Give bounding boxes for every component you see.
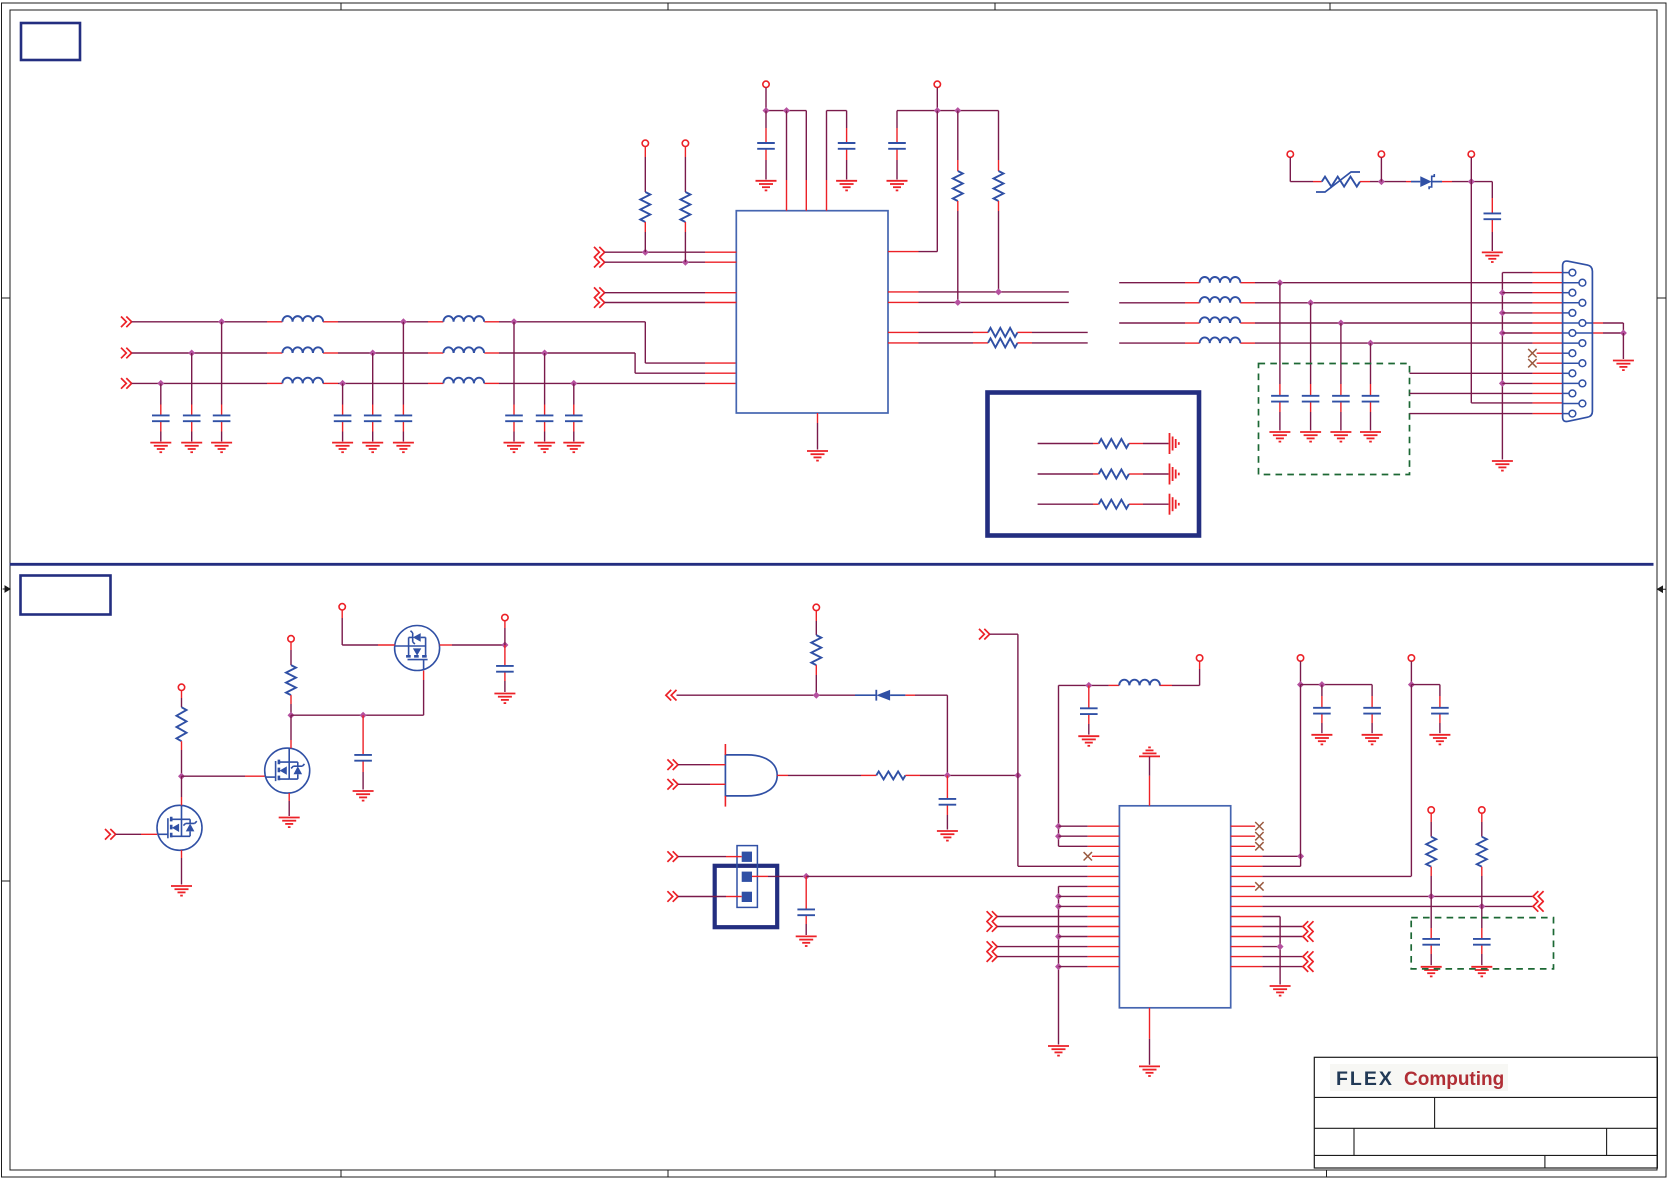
wire U3 right pin12 [1231,936,1263,938]
wire U2 in2 [678,783,710,785]
resistor R3 [953,171,963,201]
ground C10 [756,181,777,191]
logo FLEX Computing [1330,1064,1508,1091]
wire C10 branch [765,111,767,128]
ground C19 [937,831,958,841]
capacitor C17 [354,755,372,761]
pin J1-1 [1563,272,1569,274]
wire R1 bottom [644,222,646,232]
border zone ticks bottom [340,1170,342,1177]
node junction filter C3 [218,318,225,325]
wire U1 pin row 302 [605,302,705,304]
node output chevron pin14 [1303,951,1314,962]
capacitor C22 [1313,708,1331,714]
wire rail2 [897,110,999,112]
node junction filter C1 [157,380,164,387]
shield box dashed [1259,364,1410,475]
node output chevron EN [666,690,677,701]
wire U1 pin row 262 [605,261,705,263]
capacitor C13 [1484,213,1502,219]
wire U1 right row 342 [888,342,919,344]
terminal P11 [502,614,508,620]
wire R8 bottom [290,695,292,704]
wire P1 to F1 [1290,181,1313,183]
wire R9 bottom [815,665,817,675]
terminal P7 [934,81,940,87]
pin J1-13 [1563,392,1569,394]
ground filter C5 [362,443,383,453]
node phase C input chevron [121,378,132,389]
wire U3 left pin10 [997,916,1087,918]
wire P13 drop [1199,661,1201,669]
resistor R1 [640,192,650,222]
terminal P1 [1287,151,1293,157]
connector J1 body [1563,261,1593,421]
wire R7 top [181,691,183,699]
no-connect U3 right pin1 [1231,825,1256,827]
wire U3 left pin2 [1059,835,1088,837]
capacitor C7 [505,415,523,421]
wire U3 right pin15 [1231,966,1263,968]
no-connect U3 pin4 [1084,852,1092,860]
wire U1 vdd pin a [786,111,788,180]
wire Q3 gate [423,680,425,715]
node J2 input chevron 1 [667,851,678,862]
node junction U3 pin8 [1055,893,1062,900]
capacitor C25 [1422,939,1440,945]
pin J1-6 right lead [1586,322,1593,324]
sheet label box bottom [21,576,111,615]
wire C23 branch [1371,685,1373,696]
wire P11 drop [504,621,506,628]
wire R1 top [644,147,646,158]
wire U3 right pin11 [1231,926,1263,928]
terminal P16 [1428,807,1434,813]
wire D2 drop [946,695,948,775]
svg-text:FLEX: FLEX [1336,1068,1394,1090]
terminal P5 [682,140,688,146]
node junction P3 [1468,178,1475,185]
wire U3 left pin1 [1059,825,1088,827]
node junction D2 R10 [944,772,951,779]
wire rail3 to pin4 [1300,685,1302,857]
sheet label box top [21,23,80,60]
resistor R6 [988,338,1018,347]
wire filter C4 branch [342,383,344,404]
node junction filter C7 [511,318,518,325]
ground C17 [1360,432,1381,442]
node U1 left input chevron 4 [594,297,605,308]
IC U3 [1119,806,1230,1008]
pin J2-2 [742,872,752,882]
node output chevron pin12 [1303,931,1314,942]
wire U1 gnd [817,413,819,423]
wire EN row [677,694,856,696]
ground J1 [1613,361,1634,371]
pin J1-9 [1563,352,1569,354]
wire U1 right row 302 [888,301,919,303]
shield box dashed 2 [1411,918,1553,969]
node junction J1 gnd [1620,330,1627,337]
node output chevron pin11 [1303,921,1314,932]
pin J1-15 [1563,413,1569,415]
node U3 input chevron pin10 [987,911,998,922]
node junction U3 pin12 [1055,933,1062,940]
wire C17 branch [1370,343,1372,384]
node junction C21 [1085,682,1092,689]
ground C17 [353,791,374,801]
wire U3 right pin9 [1231,905,1263,907]
wire U3 left pin8 [1059,895,1088,897]
ground C21 [1078,736,1099,746]
wire P1 drop [1289,157,1291,181]
wire phase row B [132,352,267,354]
node junction R4 [995,288,1002,295]
wire filter C2 branch [191,353,193,405]
wire C11 branch [846,111,848,128]
title block column dividers [1434,1097,1436,1128]
wire mid rail [827,110,847,112]
pin J1-11 [1563,372,1569,374]
wire Q1 source [181,850,183,858]
capacitor C11 [838,143,856,149]
node junction C16 [1337,320,1344,327]
wire J1 pin3 [1502,292,1532,294]
wire U1 right row 332 [888,331,919,333]
resistor R4 [994,171,1004,201]
capacitor C16 [1332,396,1350,402]
node junction P2 [1378,178,1385,185]
node junction Q2 drain [288,712,295,719]
ground filter C7 [504,443,525,453]
node junction C18 [501,642,508,649]
node junction C14 [1276,279,1283,286]
node junction U3 pin9 [1055,903,1062,910]
node junction filter C4 [339,380,346,387]
inductor L9 [1200,317,1241,323]
termination box frame [988,393,1200,536]
wire phase row C [132,382,267,384]
ground C14 [1269,432,1290,442]
wire gate rail [291,714,363,716]
inductor L5 [443,347,484,353]
wire rail3 drop [1300,661,1302,684]
terminal P12 [813,604,819,610]
node U3 input chevron pin11 [987,921,998,932]
resistor RT3 [1099,500,1129,509]
terminal P2 [1378,151,1384,157]
pin J1-4 [1563,302,1579,304]
wire Q1 drain [181,776,183,797]
wire J1 pin11 [1410,372,1533,374]
pin J1-2 [1563,282,1579,284]
wire J1 pin15 [1410,413,1533,415]
sheet separator line [10,563,1654,566]
wire D1 out [1442,181,1452,183]
ground C13 [1482,252,1503,262]
wire output row 2 [1119,302,1185,304]
title block row lines [1314,1096,1657,1098]
capacitor C19 [939,799,957,805]
capacitor C3 [213,415,231,421]
wire Q2 source [288,793,290,801]
fuse F1 PTC [1322,177,1360,187]
wire C20 branch [805,876,807,909]
resistor RT2 [1099,470,1129,479]
terminal P10 [339,604,345,610]
no-connect U3 right pin3 [1231,845,1256,847]
resistor RT1 [1099,439,1129,448]
node junction R12 [1478,903,1485,910]
pin J1-8 [1563,342,1579,344]
wire rail3 [1301,684,1373,686]
wire filter C8 branch [544,353,546,405]
wire rail4 to pin6 [1410,685,1412,877]
node U3 input chevron pin13 [987,941,998,952]
wire U3 top pin [1149,756,1151,775]
border mid arrow right [1658,586,1667,592]
wire R9 top [815,611,817,621]
capacitor C12 [888,143,906,149]
wire J2 pin1 [678,856,726,858]
resistor R11 [1426,837,1436,867]
node U2 input chevron 2 [667,779,678,790]
wire C19 branch [946,775,948,799]
pin J1-7 [1563,332,1569,334]
wire C16 branch [1340,323,1342,384]
capacitor C10 [757,143,775,149]
node U3 input chevron pin14 [987,951,998,962]
ground filter C2 [181,443,202,453]
node junction R1 [642,249,649,256]
wire R7 bottom [181,741,183,750]
wire R6 out [1017,342,1032,344]
wire U3 left pin9 [1059,905,1088,907]
wire P3 drop [1470,157,1472,181]
node junction J1 pin12 [1499,380,1506,387]
wire filter C9 branch [573,383,575,404]
wire phase row A [132,321,267,323]
resistor R7 [177,707,187,741]
ground U3 bus [1048,1046,1069,1056]
wire R3 bottom [957,201,959,211]
gate U2 AND [725,755,777,796]
pin J1-10 [1563,362,1579,364]
node U1 left input chevron 3 [594,287,605,298]
wire termination row 2 [1038,473,1093,475]
wire R3 top [957,111,959,160]
wire filter C7 branch [513,322,515,405]
border mid arrow left [3,586,10,592]
no-connect U3 right pin7 [1231,885,1256,887]
wire U1 vdd pin c [826,111,828,180]
node junction filter C8 [541,350,548,357]
node junction filter C5 [369,350,376,357]
resistor R9 [811,635,821,665]
inductor L7 [1200,277,1241,283]
chassis ground RT2 [1170,464,1179,485]
node junction C15 [1307,299,1314,306]
ground C24 [1429,735,1450,745]
wire output row 3 [1119,322,1185,324]
wire U3 left pin11 [997,926,1087,928]
wire phase A jog to U1 [644,322,646,363]
wire U3 right pin10 [1231,916,1263,918]
pin J1-5 [1563,312,1569,314]
node junction rail1 b [783,107,790,114]
ground C22 [1311,735,1332,745]
wire J2 pin2 net [752,875,768,877]
terminal P4 [642,140,648,146]
border zone ticks left [2,297,11,299]
node U1 left input chevron 1 [594,247,605,258]
node junction rail3 [1297,853,1304,860]
wire U3 right pin13 [1231,946,1263,948]
node junction U3 pin15 [1055,963,1062,970]
wire rail1 drop [765,88,767,111]
pin J2-1 [742,852,752,862]
wire L11 row [1172,684,1200,686]
node junction rail2 b [954,107,961,114]
ground filter C4 [332,443,353,453]
node U2 input chevron 1 [667,759,678,770]
node junction rail3 top [1297,681,1304,688]
wire C13 branch [1491,182,1493,198]
wire J1 pin7 gnd [1592,332,1603,334]
capacitor C20 [797,909,815,915]
wire C18 branch [504,645,506,666]
wire F1 to D1 [1360,181,1370,183]
wire C14 branch [1279,283,1281,384]
wire C21 branch [1088,685,1090,708]
node junction filter C6 [400,318,407,325]
wire U1 right row 292 [888,291,919,293]
node Q1 gate input chevron [105,829,116,840]
wire D1 net to pin14 [1470,182,1472,403]
resistor R2 [680,192,690,222]
wire U1 pin row 292 [605,292,705,294]
inductor L11 [1119,680,1160,686]
wire C22 branch [1321,685,1323,696]
node junction R3 [954,299,961,306]
node junction rail1 a [763,107,770,114]
wire SD [990,633,1018,635]
border zone ticks top [340,3,342,10]
wire U3 left pin3 [1059,845,1088,847]
node junction Q1 drain [178,773,185,780]
diode D2 [855,694,876,696]
ground filter C3 [211,443,232,453]
capacitor C2 [183,415,201,421]
capacitor C26 [1473,939,1491,945]
connector J2 header [715,866,778,927]
node junction gate net [1014,772,1021,779]
chassis ground RT1 [1170,433,1179,454]
ground filter C9 [563,443,584,453]
transistor Q1 [157,805,202,850]
wire U3 left pin12 [1059,936,1088,938]
title block frame [1314,1057,1657,1168]
wire SD to U3 pin5 [1018,865,1088,867]
no-connect J1 pin9 [1528,349,1536,357]
wire Q2 drain [290,715,292,740]
pin J1-7 right lead [1576,332,1593,334]
node output chevron pin9 [1533,901,1544,912]
inductor L8 [1200,297,1241,303]
ground filter C8 [534,443,555,453]
node junction C17 [360,712,367,719]
capacitor C9 [565,415,583,421]
node junction U3 pin1 [1055,823,1062,830]
node junction filter C9 [570,380,577,387]
wire U1 vdd pin b [805,111,807,180]
wire R10 out [905,774,920,776]
wire D2 out [905,694,915,696]
wire U3 right pin14 [1231,956,1263,958]
ground Q2 [279,818,300,828]
inductor L3 [282,378,323,384]
wire U3 right pin5 [1231,865,1263,867]
node junction rail4 [1408,681,1415,688]
ground filter C1 [150,443,171,453]
wire U3 bottom pin [1149,1008,1151,1039]
wire R11 bottom [1430,867,1432,876]
node U1 left input chevron 2 [594,257,605,268]
capacitor C5 [364,415,382,421]
capacitor C6 [395,415,413,421]
wire termination row 1 [1038,443,1093,445]
wire U3 right pin4 [1231,855,1263,857]
wire U2 out [777,774,788,776]
wire U1 out1 rail [936,111,938,252]
wire C17 branch [362,715,364,755]
node phase B input chevron [121,348,132,359]
wire R11 top [1430,813,1432,822]
terminal P13 [1196,655,1202,661]
capacitor C8 [536,415,554,421]
wire filter C5 branch [372,353,374,405]
wire U3 left pin7 [1059,885,1088,887]
wire U1 pin row 252 [605,251,705,253]
resistor R8 [286,665,296,695]
node junction gnd right [1277,943,1284,950]
wire termination row 3 [1038,503,1093,505]
wire rail2 drop [936,88,938,111]
wire supply bus drop [1058,685,1060,846]
ground Q1 [171,886,192,896]
IC U1 [736,211,888,413]
wire rail4 [1411,684,1440,686]
wire U3 left pin14 [997,956,1087,958]
wire Q3 drain [341,610,343,618]
wire rail4 drop [1410,661,1412,684]
ground C20 [796,936,817,946]
capacitor C23 [1363,708,1381,714]
border zone ticks right [1657,297,1666,299]
ground U3 [1139,1066,1160,1076]
wire phase B jog to U1 [634,353,636,373]
transistor Q3 [395,626,440,671]
wire J2 pin3 [678,896,726,898]
wire U2 in1 [678,764,710,766]
ground U3 right [1270,986,1291,996]
capacitor C21 [1080,708,1098,714]
node output chevron pin8 [1533,891,1544,902]
wire C15 branch [1310,303,1312,384]
wire C26 branch [1481,906,1483,928]
wire filter C6 branch [402,322,404,405]
pin J1-3 [1563,292,1569,294]
